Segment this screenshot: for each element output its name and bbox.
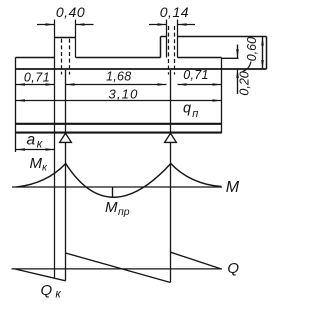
arrow 0,71R left	[178, 83, 187, 86]
arrow 0,14 left	[158, 23, 167, 26]
loading band top	[16, 123, 222, 125]
arrow 1,68 right	[158, 83, 167, 86]
left support triangle	[60, 133, 72, 142]
arrow 0,40 left (points right, tip at col left edge)	[46, 23, 55, 26]
svg-text:0,14: 0,14	[160, 4, 189, 20]
dimension row 3,10	[16, 100, 222, 102]
arrow 1,68 left	[66, 83, 75, 86]
svg-text:M: M	[226, 179, 240, 196]
svg-text:0,60: 0,60	[245, 37, 259, 61]
Q cantilever slope right	[171, 252, 222, 269]
arrow 0,71R right	[213, 83, 222, 86]
M midspan ordinate tick	[112, 188, 114, 197]
arrow 0,60 top (points up)	[261, 37, 264, 46]
arrow a_k right	[46, 148, 55, 151]
M diagram curve	[17, 164, 222, 198]
svg-text:0,71: 0,71	[24, 71, 50, 85]
arrow 0,20 lower (points up)	[236, 69, 239, 78]
dashed hidden lines in right column	[168, 26, 170, 75]
0,20 extension line at beam corner	[222, 57, 239, 59]
beam top edge	[16, 57, 222, 59]
M diagram baseline	[12, 186, 222, 188]
dimension row 0,71 / 1,68 / 0,71	[16, 84, 55, 86]
arrowheads	[16, 23, 264, 151]
block right edge	[266, 37, 268, 70]
svg-text:0,71: 0,71	[183, 68, 209, 82]
arrow 0,71L right	[46, 83, 55, 86]
loading band bottom	[16, 132, 222, 134]
beam bottom edge	[16, 68, 267, 70]
svg-text:3,10: 3,10	[108, 87, 138, 102]
Q diagram baseline	[12, 268, 223, 270]
arrow 0,71L left	[16, 83, 25, 86]
extension line / left column right edge	[75, 20, 77, 58]
beam left end face + extension down	[15, 58, 17, 153]
right column right edge	[177, 20, 179, 58]
beam right end face + extension down	[221, 58, 223, 134]
Q main span slope	[66, 253, 171, 283]
dimension 0,14 line left tail	[149, 24, 167, 26]
right column left edge	[166, 20, 168, 58]
0,20 upper arrow shaft	[237, 45, 239, 59]
dimension 0,40 line right tail	[76, 24, 94, 26]
arrow 0,20 upper (points down)	[236, 49, 239, 58]
left column top	[55, 37, 76, 39]
arrow a_k left	[16, 148, 25, 151]
arrow 3,10 left	[16, 99, 25, 102]
svg-text:1,68: 1,68	[106, 69, 132, 83]
0,20 lower arrow shaft	[237, 69, 239, 94]
0,60 dimension line	[262, 37, 264, 70]
block top edge	[161, 36, 267, 38]
leader arc 0,20	[243, 62, 252, 72]
right column axis line	[170, 70, 172, 282]
dimension 0,14 line right tail	[178, 24, 196, 26]
extension line / left column left edge (long, down to Q)	[54, 20, 56, 278]
right support triangle	[165, 133, 177, 142]
svg-text:0,20: 0,20	[238, 71, 252, 95]
arrow 3,10 right	[213, 99, 222, 102]
arrow 0,14 right	[178, 23, 187, 26]
dimension 0,40 line left tail	[37, 24, 55, 26]
arrow 0,60 bottom (points down)	[261, 60, 264, 69]
dimension a_k line	[16, 149, 55, 151]
Q cantilever slope left	[15, 269, 66, 281]
step at block left	[160, 37, 162, 58]
dashed hidden lines in left column	[62, 26, 175, 75]
svg-text:0,40: 0,40	[56, 4, 85, 20]
arrow 0,40 right (points left, tip at col right edge)	[76, 23, 85, 26]
svg-text:Q: Q	[227, 260, 239, 277]
left column axis line	[65, 70, 67, 281]
